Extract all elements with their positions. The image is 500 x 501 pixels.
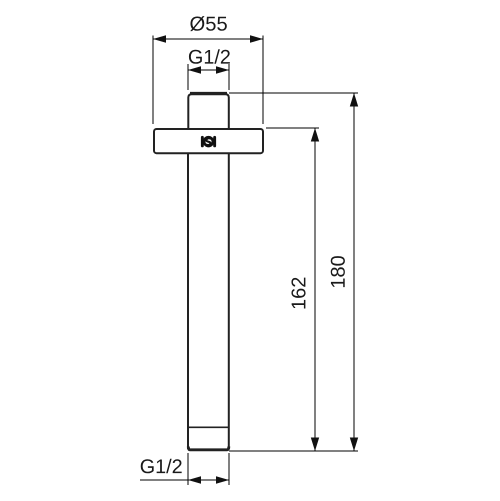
ISI logo bbox=[201, 136, 216, 147]
leader line from flange top to 162 dim bbox=[266, 127, 319, 129]
dimension line 180 bbox=[350, 93, 358, 451]
leader line from pipe bottom to dims bbox=[229, 450, 358, 452]
dimension label 162 bbox=[291, 278, 305, 309]
dimension label 180 bbox=[331, 256, 345, 287]
extension line left of G1/2 bottom bbox=[187, 453, 189, 485]
ceiling flange bbox=[154, 129, 263, 153]
dimension line G1/2 bottom bbox=[188, 476, 229, 484]
extension line left of G1/2 top bbox=[187, 64, 189, 90]
pipe body bbox=[188, 154, 229, 450]
extension line left of Ø55 bbox=[152, 36, 154, 125]
leader line from connector top to 180 dim bbox=[229, 92, 358, 94]
dimension label Ø55 bbox=[190, 16, 227, 31]
dimension line 162 bbox=[311, 128, 319, 451]
dimension line Ø55 bbox=[153, 35, 263, 43]
extension line right of G1/2 top bbox=[228, 64, 230, 90]
dimension label G1/2 top bbox=[189, 49, 230, 64]
extension line right of Ø55 bbox=[262, 36, 264, 125]
bottom thread separator line bbox=[188, 426, 229, 428]
dimension line G1/2 top bbox=[188, 66, 229, 74]
bottom thread cap G1/2 bbox=[188, 447, 229, 450]
extension line right of G1/2 bottom bbox=[228, 453, 230, 485]
thread connector G1/2 top bbox=[188, 93, 229, 129]
leader line under G1/2 bottom label bbox=[140, 479, 188, 481]
dimension label G1/2 bottom bbox=[141, 459, 182, 474]
